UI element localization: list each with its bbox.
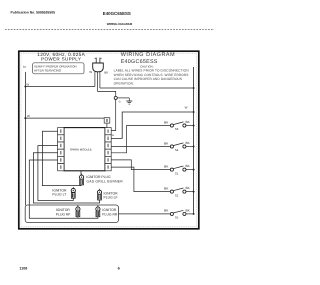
label ignitor plug RR <box>102 208 118 216</box>
verify operation note box <box>33 63 84 74</box>
wire BK run to right bus <box>100 87 194 89</box>
svg-text:G: G <box>119 101 121 104</box>
wire module to ignitor LT <box>42 131 81 185</box>
label grill ignitor plug <box>86 175 123 184</box>
wire W drop to module <box>106 123 108 128</box>
griddle box <box>25 205 118 222</box>
wire module to switch S2 <box>111 167 170 192</box>
svg-text:PLUG RR: PLUG RR <box>102 212 118 216</box>
page header subtitle <box>107 22 133 26</box>
svg-text:W: W <box>89 70 92 74</box>
connector ignitor plug RF <box>76 205 80 216</box>
svg-text:BK: BK <box>104 70 108 74</box>
pin 1 right <box>105 128 111 135</box>
svg-text:W: W <box>185 105 188 109</box>
svg-text:WIRING DIAGRAM: WIRING DIAGRAM <box>121 52 175 58</box>
page header model number <box>103 11 131 16</box>
svg-text:S5: S5 <box>175 216 179 220</box>
label W at plug <box>89 70 92 74</box>
connector inline plug on W run <box>104 118 110 123</box>
label ignitor plug RF <box>56 208 71 216</box>
wire module to ignitor RF <box>33 153 99 203</box>
svg-text:PLUG RF: PLUG RF <box>56 212 71 216</box>
svg-text:OPERATION.: OPERATION. <box>114 81 134 85</box>
pin 3 left <box>58 142 64 149</box>
switch S4 <box>164 141 194 152</box>
node junction W1 <box>24 86 26 88</box>
node ground terminal <box>114 96 117 99</box>
pin 2 right <box>105 135 111 142</box>
wire plug GN lead <box>96 72 98 92</box>
wire W second run <box>25 114 107 118</box>
header dashed rule <box>5 29 214 31</box>
label W at module pin <box>112 134 115 137</box>
pin 6 right <box>105 164 111 171</box>
pin 3 right <box>105 142 111 149</box>
switch S2 <box>164 186 194 197</box>
pin 4 left <box>58 149 64 156</box>
switch S1 <box>164 164 194 175</box>
svg-text:S3: S3 <box>175 127 179 131</box>
page header publication number <box>11 11 56 15</box>
svg-text:S1: S1 <box>175 171 179 175</box>
wire to ground symbol <box>117 97 129 99</box>
pin 4 right <box>105 149 111 156</box>
wire W top run <box>25 82 95 86</box>
svg-text:PLUG LF: PLUG LF <box>104 196 118 200</box>
svg-text:W: W <box>27 114 30 118</box>
wire module to ignitor LF <box>38 146 73 201</box>
wire module to switch S3 <box>111 126 170 153</box>
diagram title <box>121 52 175 65</box>
ground <box>126 98 132 104</box>
page footer date code <box>19 267 27 271</box>
svg-text:S2: S2 <box>175 193 179 197</box>
svg-text:SPARK MODULE: SPARK MODULE <box>70 147 92 151</box>
wire module to grill ignitor <box>80 171 82 175</box>
wire box to switch S5 <box>119 213 171 215</box>
diagram border frame <box>19 51 199 229</box>
node BK bus junction <box>193 87 195 89</box>
label N <box>23 65 26 69</box>
wire GN bend to ground node <box>97 91 115 96</box>
connector ignitor plug LT <box>71 187 75 198</box>
svg-text:POWER SUPPLY: POWER SUPPLY <box>41 57 81 62</box>
connector ignitor plug LF <box>97 189 101 200</box>
switch S3 <box>164 120 194 131</box>
label ignitor plug LT <box>52 188 67 196</box>
wire module to ignitor RR <box>29 160 98 218</box>
svg-text:W: W <box>26 82 29 86</box>
wire plug W lead <box>94 72 96 87</box>
node bus W junction <box>193 111 195 113</box>
wire module to switch S1 <box>111 160 170 170</box>
pin 5 left <box>58 156 64 163</box>
svg-text:6: 6 <box>118 267 120 271</box>
switch S5 <box>164 208 194 219</box>
caution note <box>114 65 190 86</box>
wire plug BK lead <box>99 72 101 88</box>
svg-text:S4: S4 <box>175 148 179 152</box>
label BK at plug <box>104 70 108 74</box>
power supply rating text <box>37 52 85 61</box>
svg-text:GAS GRILL BURNER: GAS GRILL BURNER <box>86 179 123 183</box>
neutral bus wire <box>24 72 26 205</box>
connector grill ignitor plug <box>80 174 84 185</box>
pin 1 left <box>58 128 64 135</box>
label G <box>119 101 121 104</box>
svg-text:IGNITOR PLUG: IGNITOR PLUG <box>86 175 111 179</box>
pin 2 left <box>58 135 64 142</box>
svg-text:WIRING DIAGRAM: WIRING DIAGRAM <box>107 22 133 26</box>
svg-text:1108: 1108 <box>19 267 27 271</box>
spark module U1 <box>64 128 105 171</box>
wire GN drop to module <box>111 100 116 131</box>
pin 6 left <box>58 164 64 171</box>
label ignitor plug LF <box>104 191 119 199</box>
svg-text:E40GC65ESS: E40GC65ESS <box>103 11 131 16</box>
right BK bus wire <box>193 67 195 214</box>
page footer page number <box>118 267 120 271</box>
connector ignitor plug RR <box>96 205 100 216</box>
svg-text:AFTER SERVICING: AFTER SERVICING <box>34 69 62 73</box>
plug P1 (power cord plug) <box>93 58 104 72</box>
svg-text:Publication No. 5995535505: Publication No. 5995535505 <box>11 11 56 15</box>
pin 5 right <box>105 156 111 163</box>
wire module to right bus W <box>111 105 193 138</box>
wire module to switch S4 <box>111 146 170 148</box>
node junction W2 <box>24 117 26 119</box>
svg-text:PLUG LT: PLUG LT <box>52 193 66 197</box>
